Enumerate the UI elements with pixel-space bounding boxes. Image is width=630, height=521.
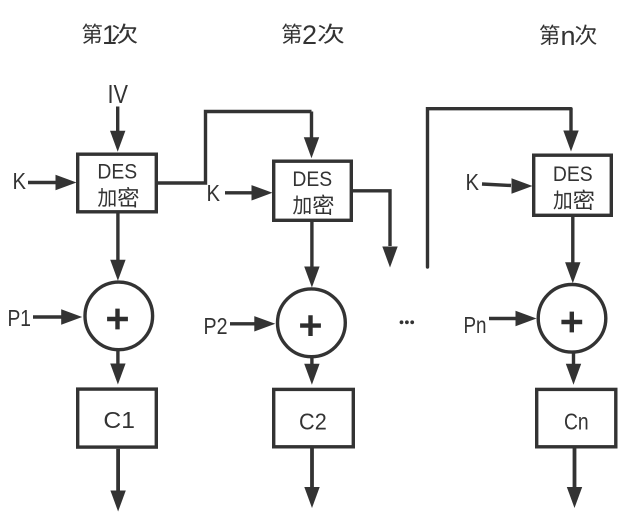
DES1 label 加 bbox=[98, 188, 115, 207]
svg-text:2: 2 bbox=[302, 20, 317, 50]
title3 次 bbox=[575, 25, 596, 45]
svg-text:DES: DES bbox=[97, 160, 137, 184]
arrowhead Pn into XOR3 bbox=[516, 311, 537, 326]
arrowhead into Cn bbox=[566, 364, 581, 385]
wire from previous stage (vertical) over to DES3 bbox=[428, 109, 572, 267]
wire XOR2 to C2 bbox=[310, 357, 313, 364]
wire K to DES3 bbox=[482, 184, 511, 186]
svg-text:n: n bbox=[561, 21, 576, 51]
svg-text:P2: P2 bbox=[204, 313, 228, 339]
title2 次 bbox=[318, 24, 344, 44]
arrowhead K into DES2 bbox=[252, 185, 273, 200]
svg-text:IV: IV bbox=[108, 79, 129, 109]
arrowhead into C1 bbox=[110, 364, 125, 385]
wire DES2 to XOR2 bbox=[310, 222, 313, 268]
DES2 label 密 bbox=[313, 194, 333, 215]
wire DES2 output right and down bbox=[353, 191, 390, 246]
title3 第 bbox=[540, 24, 559, 45]
wire C1 output down bbox=[116, 449, 120, 492]
wire DES3 to XOR3 bbox=[571, 217, 574, 263]
arrowhead P2 into XOR2 bbox=[254, 316, 275, 331]
svg-text:DES: DES bbox=[553, 162, 593, 186]
svg-text:Cn: Cn bbox=[564, 408, 589, 434]
svg-text:K: K bbox=[466, 169, 480, 195]
arrowhead C1 output bbox=[110, 491, 125, 512]
wire K to DES1 bbox=[28, 181, 57, 184]
wire C2 output down bbox=[310, 449, 314, 489]
wire Pn to XOR3 bbox=[489, 317, 516, 320]
Cn box bbox=[537, 389, 616, 446]
title1 次 bbox=[112, 24, 137, 44]
arrowhead into XOR2 bbox=[304, 267, 319, 288]
svg-text:C1: C1 bbox=[103, 407, 135, 433]
wire XOR3 to Cn bbox=[572, 352, 575, 364]
DES2 label 加 bbox=[293, 195, 310, 214]
C2 box bbox=[274, 389, 354, 446]
wire DES1 to XOR1 bbox=[116, 214, 119, 262]
XOR1 plus bbox=[107, 309, 128, 330]
wire IV to DES1 bbox=[116, 107, 119, 134]
arrowhead K into DES1 bbox=[56, 175, 77, 190]
arrowhead K into DES3 bbox=[512, 178, 533, 193]
svg-text:K: K bbox=[207, 180, 221, 206]
wire DES1 output feedback to DES2 (right, up, over) bbox=[158, 112, 312, 184]
DES3 box bbox=[534, 155, 612, 215]
wire P1 to XOR1 bbox=[33, 315, 62, 318]
DES2 box bbox=[274, 161, 352, 220]
title1 第 bbox=[82, 24, 101, 44]
XOR3 plus bbox=[561, 312, 582, 333]
svg-text:1: 1 bbox=[102, 20, 117, 50]
arrowhead into DES2 top bbox=[304, 137, 319, 158]
arrowhead into C2 bbox=[304, 364, 319, 385]
wire Cn output down bbox=[573, 449, 577, 489]
XOR1 circle bbox=[85, 282, 153, 350]
XOR3 circle bbox=[538, 285, 606, 353]
DES1 box bbox=[78, 154, 157, 212]
wire XOR1 to C1 bbox=[116, 350, 119, 364]
arrowhead into XOR3 bbox=[565, 262, 580, 283]
wire P2 to XOR2 bbox=[230, 322, 256, 325]
XOR2 plus bbox=[300, 315, 321, 336]
svg-text:DES: DES bbox=[292, 167, 332, 191]
svg-text:P1: P1 bbox=[8, 305, 32, 331]
arrowhead Cn output bbox=[567, 487, 582, 508]
DES3 label 密 bbox=[574, 189, 594, 210]
svg-text:C2: C2 bbox=[299, 409, 327, 435]
DES1 label 密 bbox=[118, 187, 138, 208]
wire down into DES2 bbox=[310, 112, 313, 139]
arrowhead into DES3 top bbox=[563, 131, 578, 152]
DES3 label 加 bbox=[554, 190, 571, 209]
wire down into DES3 bbox=[569, 109, 572, 132]
ellipsis dots bbox=[400, 320, 404, 324]
arrowhead P1 into XOR1 bbox=[61, 309, 82, 324]
svg-text:Pn: Pn bbox=[464, 312, 487, 338]
arrowhead DES2 output down bbox=[382, 247, 397, 268]
arrowhead into XOR1 bbox=[110, 260, 125, 281]
arrowhead into DES1 top bbox=[110, 131, 125, 152]
wire K to DES2 bbox=[225, 191, 253, 194]
title2 第 bbox=[282, 24, 301, 44]
C1 box bbox=[78, 389, 157, 447]
arrowhead C2 output bbox=[304, 487, 319, 508]
XOR2 circle bbox=[278, 289, 346, 357]
svg-text:K: K bbox=[13, 168, 27, 194]
